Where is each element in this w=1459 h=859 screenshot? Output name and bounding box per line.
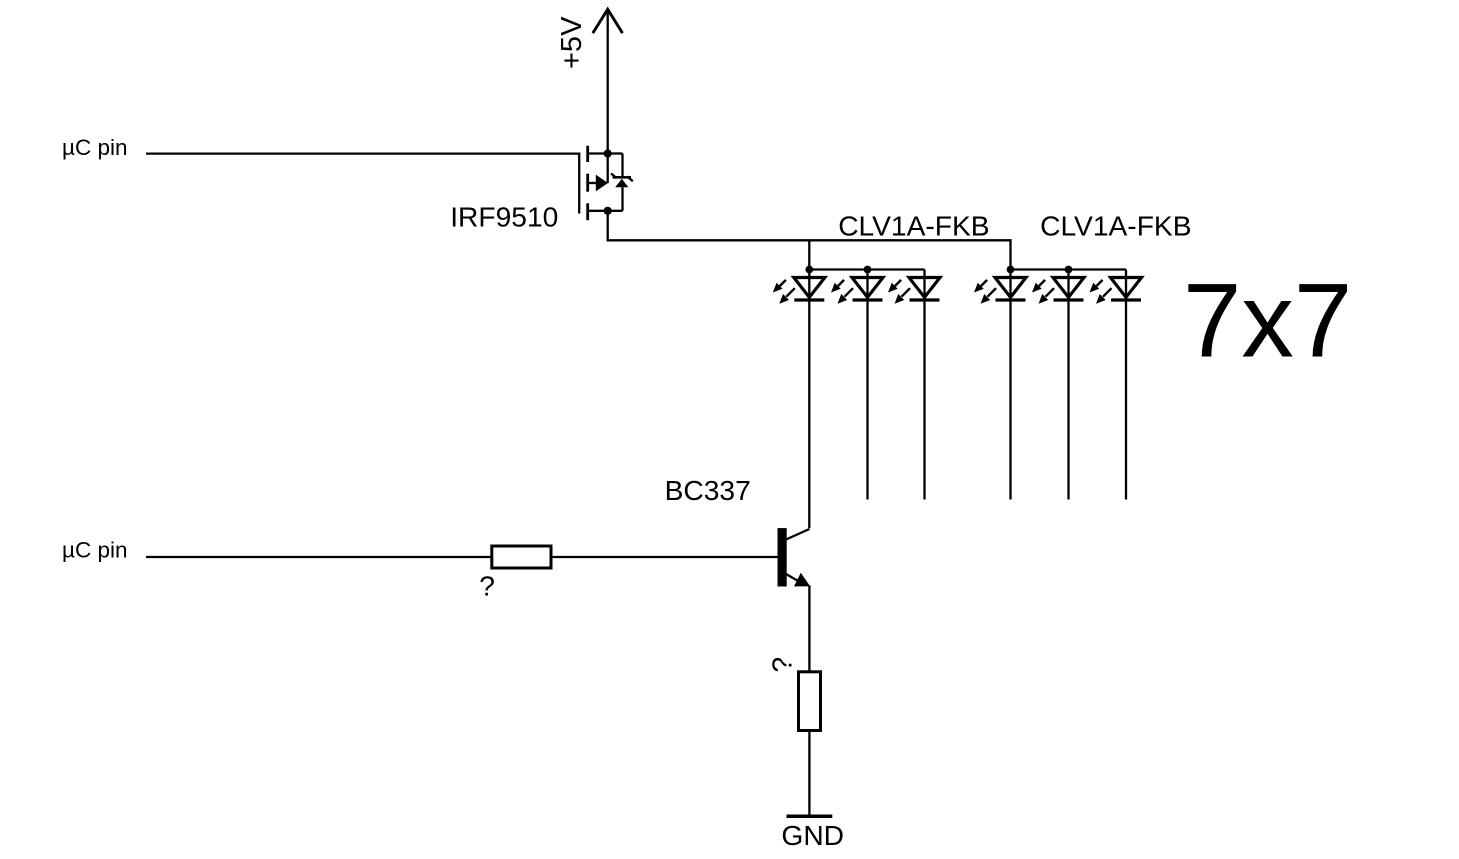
svg-text:BC337: BC337 <box>665 474 751 506</box>
svg-text:?: ? <box>766 657 798 673</box>
svg-text:?: ? <box>479 569 495 601</box>
svg-text:GND: GND <box>781 819 844 851</box>
svg-text:7x7: 7x7 <box>1183 263 1352 380</box>
svg-text:µC pin: µC pin <box>62 135 128 160</box>
svg-text:µC pin: µC pin <box>62 538 128 563</box>
svg-text:CLV1A-FKB: CLV1A-FKB <box>1040 210 1191 242</box>
svg-text:+5V: +5V <box>556 16 588 69</box>
svg-text:IRF9510: IRF9510 <box>450 201 558 233</box>
svg-text:CLV1A-FKB: CLV1A-FKB <box>838 210 989 242</box>
